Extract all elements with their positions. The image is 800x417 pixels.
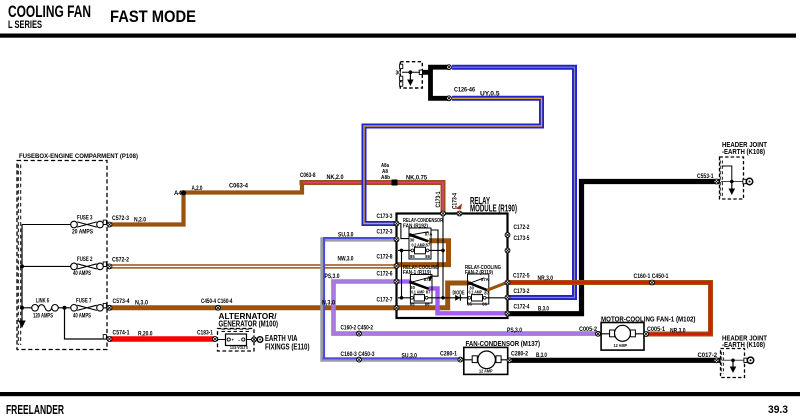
svg-text:MODULE (R190): MODULE (R190) (470, 204, 517, 215)
svg-text:-EARTH (K108): -EARTH (K108) (722, 147, 765, 156)
svg-text:FAST MODE: FAST MODE (110, 7, 196, 26)
svg-text:85: 85 (410, 254, 415, 259)
svg-text:30: 30 (396, 71, 402, 77)
svg-text:C172-8: C172-8 (377, 254, 393, 261)
svg-text:87: 87 (426, 290, 431, 295)
svg-text:85: 85 (410, 302, 415, 307)
svg-text:30: 30 (469, 286, 474, 291)
svg-text:FAN-CONDENSOR (M137): FAN-CONDENSOR (M137) (466, 339, 541, 348)
svg-text:87A: 87A (481, 277, 489, 282)
svg-text:A,2.0: A,2.0 (192, 185, 203, 192)
svg-text:FUSE 2: FUSE 2 (77, 256, 93, 263)
svg-text:C160-3 C450-3: C160-3 C450-3 (341, 351, 375, 358)
svg-text:R,20.0: R,20.0 (138, 331, 153, 338)
svg-text:20 AMPS: 20 AMPS (72, 229, 93, 236)
svg-text:B,3.0: B,3.0 (536, 352, 547, 359)
svg-text:30: 30 (410, 285, 415, 290)
svg-text:NW,3.0: NW,3.0 (338, 256, 354, 263)
svg-text:C173-2: C173-2 (514, 288, 530, 295)
svg-text:FREELANDER: FREELANDER (6, 403, 64, 417)
svg-text:C172-5: C172-5 (513, 273, 530, 280)
svg-text:C005-1: C005-1 (647, 326, 665, 333)
svg-text:12 AMP: 12 AMP (479, 369, 493, 374)
svg-text:C172-4: C172-4 (514, 304, 530, 311)
svg-text:C063-8: C063-8 (300, 172, 316, 179)
svg-text:PS,3.0: PS,3.0 (507, 327, 522, 334)
svg-text:86: 86 (425, 254, 430, 259)
svg-text:C572-2: C572-2 (112, 257, 129, 264)
svg-text:C017-2: C017-2 (698, 352, 718, 359)
svg-text:MOTOR-COOLING FAN-1 (M102): MOTOR-COOLING FAN-1 (M102) (601, 315, 696, 324)
svg-text:C574-1: C574-1 (113, 330, 130, 337)
svg-text:40 AMPS: 40 AMPS (73, 313, 91, 320)
svg-text:86: 86 (482, 302, 487, 307)
svg-text:C172-7: C172-7 (377, 297, 393, 304)
svg-text:C280-1: C280-1 (440, 351, 457, 358)
svg-text:SU,3.0: SU,3.0 (338, 232, 354, 239)
svg-text:C173-3: C173-3 (377, 213, 393, 220)
svg-text:120 AMPS: 120 AMPS (33, 313, 53, 320)
svg-text:C173-5: C173-5 (514, 235, 530, 242)
svg-text:N,2.0: N,2.0 (134, 217, 146, 224)
svg-text:C160-2 C450-2: C160-2 C450-2 (341, 325, 374, 332)
svg-text:86: 86 (425, 302, 430, 307)
svg-text:C173-1: C173-1 (435, 191, 442, 207)
svg-text:C005-2: C005-2 (579, 326, 597, 333)
svg-text:FAN-2 (R119): FAN-2 (R119) (465, 270, 493, 276)
svg-text:C172-6: C172-6 (377, 271, 393, 278)
svg-text:39.3: 39.3 (768, 404, 788, 416)
svg-text:NR,3.0: NR,3.0 (670, 328, 686, 335)
svg-text:B,3.0: B,3.0 (538, 306, 549, 313)
svg-text:PS,3.0: PS,3.0 (325, 273, 340, 280)
svg-text:NR,3.0: NR,3.0 (538, 275, 554, 282)
svg-text:C280-2: C280-2 (511, 351, 528, 358)
svg-text:N,3.0: N,3.0 (322, 300, 335, 307)
svg-text:NK,0.75: NK,0.75 (406, 175, 428, 182)
svg-text:87: 87 (426, 242, 431, 247)
svg-text:NK,2.0: NK,2.0 (327, 174, 344, 181)
svg-text:SU,3.0: SU,3.0 (402, 353, 418, 360)
svg-text:C063-4: C063-4 (229, 183, 249, 190)
svg-text:0.2 AMP: 0.2 AMP (412, 242, 426, 247)
svg-text:C172-3: C172-3 (377, 229, 393, 236)
svg-text:FUSE 7: FUSE 7 (76, 298, 92, 305)
svg-text:A41: A41 (174, 190, 186, 197)
svg-text:C573-4: C573-4 (113, 298, 130, 305)
svg-text:UY,0.5: UY,0.5 (480, 91, 500, 98)
svg-text:40 AMPS: 40 AMPS (73, 270, 91, 277)
svg-text:FUSEBOX-ENGINE COMPARMENT (P10: FUSEBOX-ENGINE COMPARMENT (P108) (19, 153, 138, 160)
svg-text:-EARTH (K108): -EARTH (K108) (722, 340, 765, 349)
svg-text:C572-3: C572-3 (112, 215, 129, 222)
svg-text:87A: 87A (425, 231, 433, 236)
svg-text:LINK 6: LINK 6 (36, 298, 49, 305)
svg-text:FIXINGS (E110): FIXINGS (E110) (265, 342, 310, 352)
svg-text:DIODE: DIODE (453, 290, 465, 296)
svg-text:C183-1: C183-1 (197, 330, 213, 337)
svg-text:0.1 AMP: 0.1 AMP (411, 290, 425, 295)
svg-text:C173-4: C173-4 (452, 193, 459, 209)
svg-text:A8b: A8b (381, 175, 390, 181)
svg-text:FUSE 3: FUSE 3 (77, 215, 93, 222)
svg-text:85: 85 (467, 302, 472, 307)
svg-text:C553-1: C553-1 (697, 173, 714, 180)
svg-text:87A: 87A (424, 277, 432, 282)
svg-text:L SERIES: L SERIES (8, 19, 42, 31)
svg-text:13.5 VOLTS: 13.5 VOLTS (230, 345, 248, 350)
svg-text:C126-46: C126-46 (454, 87, 475, 94)
svg-text:C172-2: C172-2 (514, 224, 530, 231)
svg-text:C450-4 C160-4: C450-4 C160-4 (201, 298, 233, 305)
svg-text:12 AMP: 12 AMP (614, 343, 628, 348)
svg-text:30: 30 (410, 238, 415, 243)
svg-text:FAN-1 (R119): FAN-1 (R119) (403, 270, 431, 276)
svg-text:GENERATOR (M100): GENERATOR (M100) (219, 319, 279, 329)
svg-text:C160-1 C450-1: C160-1 C450-1 (634, 273, 669, 280)
svg-text:N,3.0: N,3.0 (135, 300, 148, 307)
svg-text:87: 87 (484, 291, 489, 296)
svg-text:FAN (R192): FAN (R192) (403, 223, 428, 229)
